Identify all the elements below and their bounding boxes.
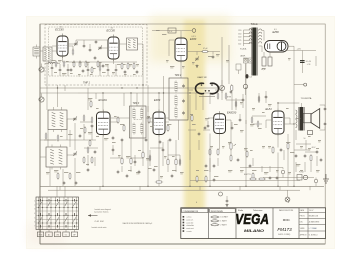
svg-text:6,3: 6,3: [274, 29, 277, 31]
AM signal bus: [78, 92, 214, 94]
AM section small parts: [57, 126, 93, 185]
sheet frame: [40, 24, 325, 244]
antenna input transformer L1: [33, 45, 40, 59]
svg-text:MF: MF: [73, 235, 75, 237]
svg-text:FONO: FONO: [299, 172, 305, 174]
svg-text:O.M. F.M.: O.M. F.M.: [95, 221, 105, 223]
capacitor above title block: [226, 196, 229, 206]
value label specks: [46, 30, 321, 178]
tube V5 EF89: [153, 110, 165, 137]
svg-text:ECC85: ECC85: [107, 28, 116, 32]
svg-text:125: 125: [238, 40, 241, 42]
svg-text:+225: +225: [297, 49, 301, 51]
IF strip small components: [90, 100, 193, 144]
svg-text:7-4-57: 7-4-57: [309, 210, 314, 212]
lamp box 2: [236, 64, 241, 74]
bias parts bottom: [196, 175, 223, 196]
svg-text:a carta: a carta: [186, 230, 191, 233]
VEGA logo cell: [235, 210, 269, 233]
power transformer T.Rete core: [251, 28, 257, 76]
svg-text:SCALA: SCALA: [240, 47, 247, 50]
tube V8 EZ80 (rectifier, horizontal): [265, 41, 289, 53]
svg-text:TMF 2: TMF 2: [175, 75, 182, 77]
AVC divider parts: [117, 151, 177, 183]
AM wires: [40, 24, 96, 197]
svg-text:VERIF.: VERIF.: [300, 228, 306, 230]
label 1/2 ECC85 (b): [107, 27, 116, 32]
FM tuner shield box (dashed): [45, 25, 147, 86]
dial lamp symbol: [285, 190, 290, 202]
matrix row labels: [34, 201, 35, 228]
keyboard note arrow: [88, 208, 111, 229]
AM antenna coil box L3: [48, 107, 67, 132]
IF transformer TMF 2: [169, 78, 188, 120]
svg-text:CONDENSATORI: CONDENSATORI: [183, 210, 199, 213]
svg-text:MOD.: MOD.: [283, 218, 291, 222]
smoothing caps boxes: [261, 52, 272, 71]
EL84 cathode parts: [272, 142, 289, 154]
tube V7 EL84: [272, 109, 284, 137]
speaker field caps: [304, 105, 327, 140]
detector extra caps: [207, 114, 242, 130]
dial lamps: [244, 58, 253, 63]
filter capacitor 50+50: [300, 61, 311, 66]
extra vertical wires AM: [48, 88, 266, 186]
wires FM box: [40, 40, 143, 85]
svg-text:50+50: 50+50: [306, 61, 311, 63]
note text bottom: [122, 222, 152, 225]
tuning gang C1: [73, 117, 76, 119]
svg-text:a mica: a mica: [186, 217, 191, 219]
output transformer core: [296, 107, 305, 131]
-18v label: [294, 147, 316, 150]
pilot jack: [294, 83, 307, 86]
keyboard buttons: [37, 232, 77, 237]
svg-text:carta olio: carta olio: [186, 221, 193, 224]
approval table: [299, 208, 326, 239]
wires output stage: [278, 103, 301, 186]
svg-text:L. T. RIGHI: L. T. RIGHI: [309, 228, 317, 230]
grid stopper box: [168, 28, 176, 33]
svg-text:EL84: EL84: [266, 107, 273, 111]
bottom distribution wires: [40, 63, 324, 190]
svg-text:110: 110: [238, 44, 241, 46]
resistenze column: [210, 209, 236, 227]
svg-text:2 WATT: 2 WATT: [220, 224, 227, 227]
svg-text:220: 220: [238, 30, 241, 32]
tube V4 ECH81: [97, 110, 111, 137]
frame tick labels: [196, 202, 290, 204]
extra connection wires: [40, 51, 317, 191]
phono jack: [297, 172, 308, 180]
AM oscillator coil box L4: [46, 145, 67, 170]
short horizontal links: [44, 100, 317, 158]
wires V3: [152, 31, 192, 79]
labels scala/lamp: [240, 47, 247, 57]
eye-side trimmer cluster: [217, 80, 232, 100]
svg-text:carta cer.: carta cer.: [186, 218, 194, 221]
IF strip wires: [103, 76, 190, 186]
condensatori column: [182, 209, 208, 233]
svg-text:DIS.: DIS.: [300, 222, 304, 224]
svg-text:140: 140: [238, 37, 241, 39]
svg-text:TMF 3: TMF 3: [133, 103, 140, 105]
label EF80: [190, 36, 197, 41]
tube V3 EF80: [175, 36, 187, 64]
label 1/2 ECC85: [55, 26, 64, 31]
FM box mid parts: [68, 40, 97, 56]
title block: [181, 208, 326, 239]
right mid wires: [240, 168, 318, 187]
tube V6 EABC80: [214, 111, 226, 135]
svg-text:EF80: EF80: [190, 37, 197, 41]
earth terminal: [323, 174, 329, 183]
label EZ80: [273, 29, 280, 34]
FM bottom extra parts: [51, 61, 118, 77]
extra density parts middle: [45, 95, 267, 166]
FM antenna coil L2: [43, 47, 52, 61]
mains entry / switch: [222, 37, 248, 99]
B+ takeoff wires: [285, 46, 310, 186]
svg-text:T.R.USCITA: T.R.USCITA: [301, 97, 312, 100]
V3 plate network: [187, 48, 220, 68]
svg-text:1/2 WATT: 1/2 WATT: [220, 216, 229, 219]
tone cap network: [295, 150, 323, 162]
svg-text:LAMP.: LAMP.: [240, 55, 246, 58]
feedback network: [244, 174, 279, 180]
svg-text:EABC80: EABC80: [227, 111, 237, 114]
svg-text:-18 V.: -18 V.: [311, 147, 316, 149]
svg-text:FM173: FM173: [277, 227, 292, 232]
T.Rete secondary winding: [259, 29, 264, 52]
svg-text:T.Rete: T.Rete: [251, 23, 259, 26]
svg-text:ECC85: ECC85: [55, 27, 64, 31]
FM box inductor: [45, 62, 60, 63]
svg-text:carta met.: carta met.: [186, 227, 194, 230]
svg-text:EF89: EF89: [154, 98, 161, 102]
svg-text:VEGA: VEGA: [235, 211, 269, 228]
tube V1b 1/2 ECC85: [108, 35, 119, 62]
test point circle: [192, 29, 196, 33]
svg-text:ELETTR.: ELETTR.: [244, 174, 251, 176]
fuse blob: [246, 74, 252, 78]
svg-text:50: 50: [304, 138, 306, 140]
svg-text:TMF 1: TMF 1: [83, 82, 91, 85]
magic eye EM81: [195, 83, 218, 96]
svg-text:6,3: 6,3: [250, 76, 252, 78]
keyboard stems: [41, 230, 75, 233]
svg-text:1 WATT: 1 WATT: [220, 220, 227, 223]
FM detector transformer T2: [127, 38, 138, 50]
svg-text:RESISTENZE: RESISTENZE: [211, 211, 224, 213]
long screen/AGC bus: [40, 87, 222, 89]
AF coupling parts: [205, 148, 254, 180]
svg-text:EABC 80: EABC 80: [198, 76, 208, 79]
FM antenna jack: [39, 64, 44, 73]
loudspeaker: [303, 109, 319, 129]
AM antenna jack: [39, 94, 44, 103]
volume potentiometer: [230, 142, 236, 151]
IF transformer TMF 3: [130, 106, 147, 138]
svg-text:S.V.: S.V.: [169, 31, 173, 33]
svg-text:PROG.: PROG.: [300, 216, 306, 218]
svg-text:160: 160: [238, 33, 241, 35]
FM interstage components: [70, 56, 139, 74]
svg-text:elettrolitici: elettrolitici: [186, 224, 194, 227]
tuning gang C2: [73, 152, 76, 154]
keyboard switch unit (tastiera): [36, 197, 79, 230]
T.Rete primary taps: [222, 29, 252, 47]
svg-text:G. BOSELLI: G. BOSELLI: [309, 234, 318, 236]
model cell: [277, 209, 293, 236]
FM oscillator trimmers: [74, 42, 102, 50]
svg-text:MILANO: MILANO: [244, 228, 265, 233]
tube V1a 1/2 ECC85: [57, 34, 68, 59]
